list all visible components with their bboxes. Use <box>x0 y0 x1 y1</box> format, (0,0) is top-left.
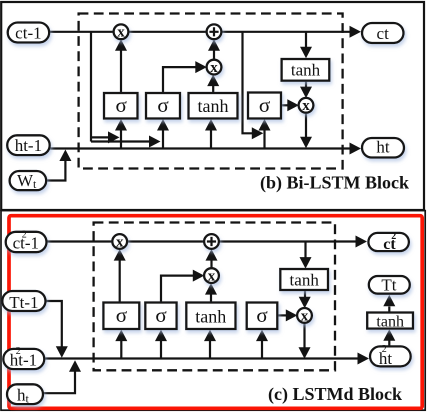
svg-text:x: x <box>117 25 125 41</box>
svg-text:ht-1: ht-1 <box>10 350 37 369</box>
svg-text:tanh: tanh <box>195 306 226 326</box>
svg-text:σ: σ <box>259 93 270 117</box>
svg-text:(c) LSTMd Block: (c) LSTMd Block <box>268 384 402 405</box>
svg-text:x: x <box>116 234 124 250</box>
svg-text:x: x <box>301 308 309 324</box>
svg-text:2: 2 <box>16 346 21 357</box>
svg-text:x: x <box>208 269 216 285</box>
svg-text:Tt-1: Tt-1 <box>9 293 38 312</box>
svg-text:ht-1: ht-1 <box>15 136 42 155</box>
svg-text:σ: σ <box>155 303 166 327</box>
svg-text:x: x <box>302 98 310 114</box>
svg-text:tanh: tanh <box>198 96 229 116</box>
svg-text:σ: σ <box>116 303 127 327</box>
svg-text:2: 2 <box>22 230 27 241</box>
svg-text:2: 2 <box>382 344 387 355</box>
svg-text:2: 2 <box>391 231 396 242</box>
svg-text:σ: σ <box>157 93 168 117</box>
svg-text:ct-1: ct-1 <box>15 23 41 42</box>
svg-text:tanh: tanh <box>376 313 404 330</box>
svg-text:(b) Bi-LSTM Block: (b) Bi-LSTM Block <box>260 173 409 194</box>
svg-text:tanh: tanh <box>290 270 320 289</box>
svg-text:Tt: Tt <box>381 276 396 295</box>
svg-text:σ: σ <box>116 93 127 117</box>
svg-text:x: x <box>210 60 218 76</box>
svg-text:ht: ht <box>376 137 390 156</box>
svg-text:σ: σ <box>256 303 267 327</box>
svg-text:ct: ct <box>377 24 390 43</box>
svg-text:tanh: tanh <box>291 61 321 80</box>
